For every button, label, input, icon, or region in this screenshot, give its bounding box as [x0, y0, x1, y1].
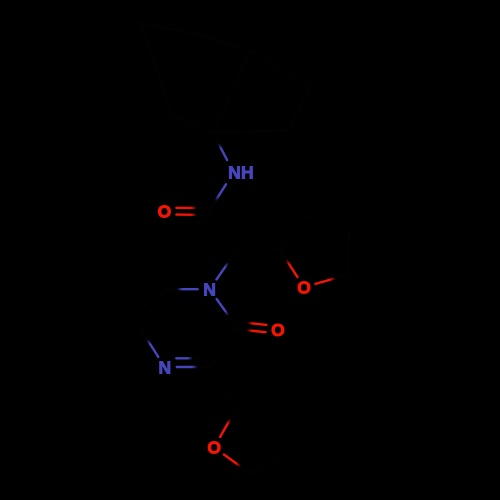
bond C3(ring)-C2(furan bottom)	[210, 367, 237, 408]
bond O1-C5 furan bottom	[224, 455, 251, 474]
bond C2-C3	[210, 325, 236, 367]
bond C3-C4 furan bottom	[267, 408, 290, 452]
bond C2=C3 furan bottom	[236, 407, 266, 410]
bond C-C top a	[213, 92, 232, 133]
bond C5=C6 inner line	[136, 290, 154, 320]
svg-text:N: N	[158, 357, 171, 377]
wire: bond N(amide)-C(cyclic substituent)	[213, 133, 227, 160]
bond C3=N4 main line	[177, 366, 210, 368]
bond C-C top d	[288, 86, 310, 130]
bond C5=C6 main line	[141, 289, 165, 329]
bond N1-C2	[217, 299, 236, 325]
bond O1-C2 furan right	[280, 249, 298, 277]
svg-text:H: H	[241, 163, 254, 183]
bond C3=N4 inner line	[176, 357, 203, 359]
bond C4=C5 furan right	[347, 230, 349, 275]
bond N1(ring)-C(central)	[217, 252, 236, 279]
bond C=O amide (double)	[176, 207, 208, 210]
bond C=O amide (double)	[176, 213, 208, 216]
svg-text:O: O	[158, 201, 172, 221]
svg-text:N: N	[203, 280, 216, 300]
svg-text:O: O	[271, 320, 285, 340]
svg-text:O: O	[297, 278, 311, 298]
wire: bond N(amide)-C(carbonyl)	[209, 184, 226, 211]
bond C-C top g	[156, 66, 170, 114]
bond C(carbonyl)-C(central)	[209, 212, 236, 253]
svg-text:N: N	[228, 163, 241, 183]
bond C(central)-C2(furan right)	[235, 249, 279, 252]
bond C-C top b	[232, 50, 250, 92]
bond N4-C5	[141, 329, 159, 357]
bond C-C top f	[170, 114, 213, 133]
bond C-C top h	[140, 23, 156, 66]
bond C-C top e	[213, 130, 288, 133]
bond N1-C6	[165, 288, 198, 290]
bond C-C top c	[250, 50, 310, 86]
bond O1-C5 furan right	[316, 275, 348, 284]
bond C4=C5 furan bottom	[251, 451, 290, 474]
bond C-C top j	[196, 34, 250, 50]
bond C-C top i	[140, 23, 196, 34]
bond C2=O (double)	[235, 329, 266, 332]
bond O1-C2 furan bottom	[220, 408, 236, 437]
bond C2=O (double)	[236, 322, 267, 325]
bond C3-C4 furan right	[306, 215, 349, 230]
bond C2=C3 furan right	[280, 215, 307, 249]
svg-text:O: O	[207, 438, 221, 458]
